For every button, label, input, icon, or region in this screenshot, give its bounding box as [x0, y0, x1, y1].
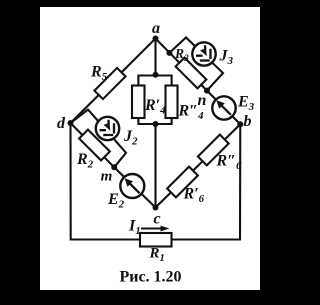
- EMF source E3: [212, 96, 235, 119]
- resistor R''4: [166, 86, 178, 119]
- resistor R5: [94, 68, 125, 99]
- current source J3: [192, 42, 215, 65]
- wire a to parallel group: [154, 39, 156, 76]
- svg-text:d: d: [57, 115, 66, 132]
- wire d-m: [71, 123, 115, 167]
- wire parallel group to c: [154, 124, 156, 208]
- junction parallel group bottom: [153, 121, 159, 127]
- junction on a-n branch: [166, 50, 172, 56]
- node d: [68, 120, 74, 126]
- current arrow I1: [141, 226, 170, 232]
- svg-text:m: m: [101, 169, 113, 185]
- resistor R2: [79, 130, 110, 161]
- EMF source E2: [120, 174, 144, 198]
- node c: [153, 205, 159, 211]
- resistor R1: [140, 233, 172, 247]
- wire parallel group bottom bar: [138, 118, 171, 124]
- wire J2 loop: [71, 110, 127, 168]
- svg-text:Рис. 1.20: Рис. 1.20: [119, 269, 181, 286]
- wire parallel group top bar: [138, 76, 171, 86]
- svg-text:n: n: [198, 92, 207, 109]
- svg-text:c: c: [153, 211, 160, 228]
- wire bottom loop d-R1-b: [71, 123, 241, 240]
- node b: [237, 121, 243, 127]
- resistor R'6: [167, 167, 198, 198]
- wire c-b: [156, 124, 241, 207]
- resistor R'4: [132, 86, 145, 119]
- node n: [204, 88, 210, 94]
- wire m-c: [114, 167, 155, 207]
- resistor R3: [176, 58, 207, 89]
- svg-text:a: a: [152, 20, 160, 37]
- node m: [111, 164, 117, 170]
- svg-text:b: b: [244, 113, 252, 130]
- wire n-b: [207, 91, 240, 125]
- node a: [153, 36, 159, 42]
- wire a-d: [71, 39, 156, 124]
- current source J2: [96, 117, 119, 140]
- resistor R''6: [198, 135, 229, 166]
- wire J3 loop: [169, 38, 223, 91]
- junction parallel group top: [153, 72, 159, 78]
- wire a-n: [156, 39, 208, 91]
